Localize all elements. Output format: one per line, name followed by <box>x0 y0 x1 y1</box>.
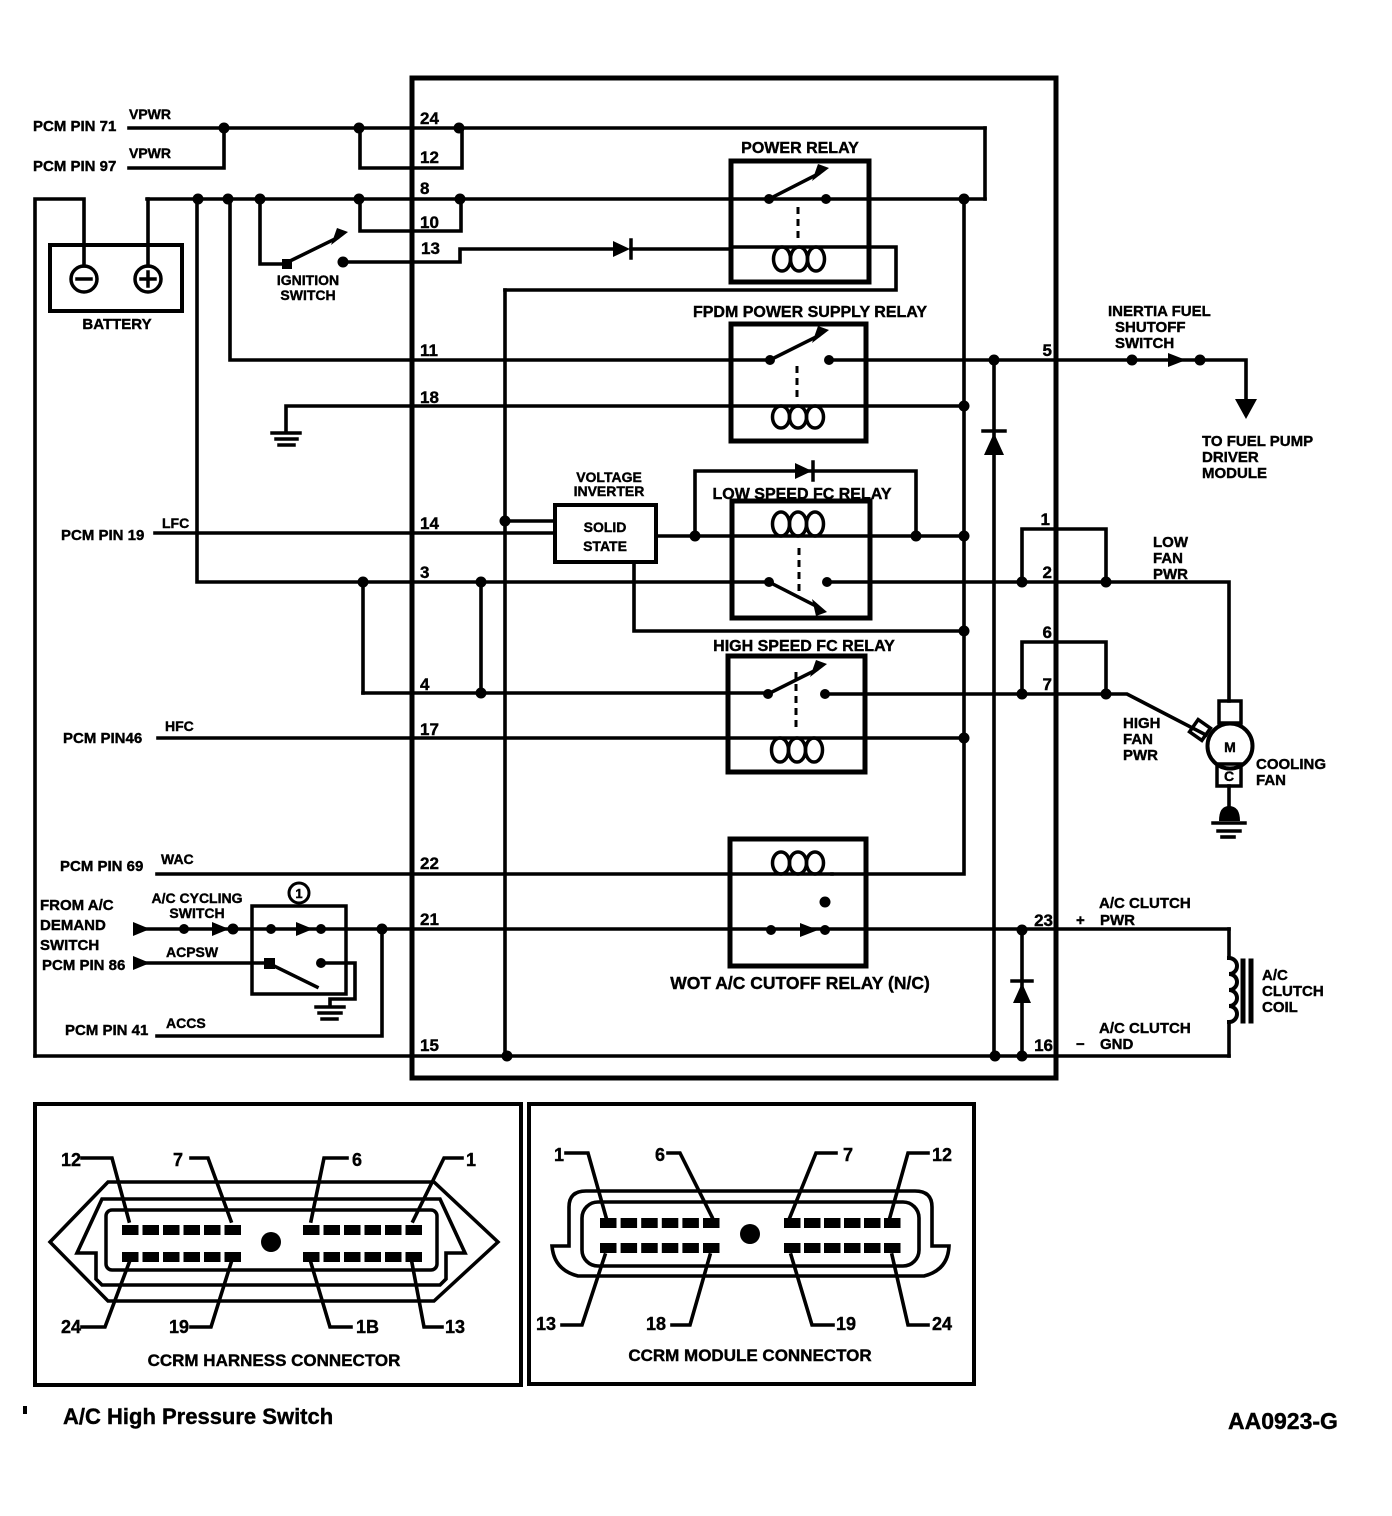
svg-text:TO FUEL PUMP: TO FUEL PUMP <box>1202 433 1313 450</box>
wire pin 6 outer bracket <box>1056 642 1106 694</box>
svg-text:1B: 1B <box>356 1317 379 1337</box>
junction bus x228 <box>223 194 234 205</box>
svg-text:1: 1 <box>295 886 302 901</box>
WOT arrow contact <box>800 923 818 937</box>
battery negative terminal <box>71 266 97 292</box>
svg-text:HFC: HFC <box>165 718 194 734</box>
wire pin 17 HFC line <box>158 736 728 740</box>
svg-text:FAN: FAN <box>1153 550 1183 567</box>
svg-text:MODULE: MODULE <box>1202 465 1267 482</box>
power relay right contact <box>821 194 831 204</box>
battery B+ bus wire <box>147 197 985 201</box>
wire VPWR pin97 riser <box>129 128 224 168</box>
junction 4 line x481 <box>476 688 487 699</box>
junction HS coil rail <box>959 733 970 744</box>
svg-text:19: 19 <box>169 1317 189 1337</box>
svg-text:PCM PIN 19: PCM PIN 19 <box>61 527 144 544</box>
HS relay actuator dashed <box>795 672 798 730</box>
svg-text:7: 7 <box>1043 675 1052 694</box>
svg-text:POWER RELAY: POWER RELAY <box>741 140 859 157</box>
power relay left contact <box>764 194 774 204</box>
wire lower contact to ground <box>321 963 355 1006</box>
inductor A/C CLUTCH COIL <box>1227 929 1231 958</box>
junction LS coil right <box>911 531 922 542</box>
connector J2 module outer shell <box>552 1191 949 1276</box>
ground symbol cycling switch <box>316 1007 344 1019</box>
CCRM module box outline <box>412 78 1056 1078</box>
WOT right contact <box>820 925 830 935</box>
svg-text:CCRM HARNESS CONNECTOR: CCRM HARNESS CONNECTOR <box>148 1351 401 1370</box>
FPDM right contact <box>824 355 834 365</box>
arrow from a/c demand switch <box>133 922 150 936</box>
svg-text:19: 19 <box>836 1314 856 1334</box>
junction 3 line x363 <box>358 577 369 588</box>
svg-text:CLUTCH: CLUTCH <box>1262 983 1324 1000</box>
HS relay left contact <box>763 689 773 699</box>
svg-text:SWITCH: SWITCH <box>40 937 99 954</box>
FPDM switch arm <box>770 336 818 360</box>
relay HIGH SPEED FC RELAY box <box>728 656 865 772</box>
relay WOT A/C CUTOFF RELAY box <box>730 839 866 966</box>
svg-text:SHUTOFF: SHUTOFF <box>1115 319 1186 336</box>
wire FPDM coil to power rail <box>866 404 964 408</box>
connector J1 harness outer hexagon <box>50 1182 498 1301</box>
svg-text:18: 18 <box>646 1314 666 1334</box>
connector J1 pins top left group <box>122 1225 241 1235</box>
wire pin 21 line <box>136 927 1229 931</box>
svg-text:GND: GND <box>1100 1036 1134 1053</box>
wire pin 6 inner bracket <box>1022 642 1056 694</box>
svg-text:18: 18 <box>420 388 439 407</box>
svg-text:1: 1 <box>554 1145 564 1165</box>
svg-text:PCM PIN 86: PCM PIN 86 <box>42 957 125 974</box>
svg-text:DRIVER: DRIVER <box>1202 449 1259 466</box>
svg-text:5: 5 <box>1043 341 1052 360</box>
svg-text:PWR: PWR <box>1153 566 1188 583</box>
connector J1 pins bottom left group <box>122 1252 241 1262</box>
wire pin 14 LFC line <box>155 531 555 535</box>
svg-text:13: 13 <box>445 1317 465 1337</box>
svg-text:FAN: FAN <box>1256 772 1286 789</box>
junction 21 line x184 <box>179 924 189 934</box>
wire LS coil to power rail <box>870 534 964 538</box>
HS relay switch arm <box>768 670 816 694</box>
svg-text:7: 7 <box>843 1145 853 1165</box>
junction ACCS tap <box>377 924 388 935</box>
junction 15 line x995 <box>990 1051 1001 1062</box>
junction LS coil left <box>690 531 701 542</box>
arrow to fuel pump driver module <box>1235 399 1257 419</box>
wire internal ground rail x505 <box>503 290 507 1056</box>
connector J1 center hole <box>261 1232 281 1252</box>
wire HS coil to power rail <box>865 736 964 740</box>
junction 7 line x1106 <box>1101 689 1112 700</box>
ground fan motor <box>1227 786 1231 808</box>
cycling switch upper right contact <box>316 924 326 934</box>
junction 15 line x507 <box>502 1051 513 1062</box>
relay POWER RELAY box <box>731 161 869 282</box>
motor COOLING FAN <box>1219 701 1241 723</box>
svg-text:M: M <box>1224 739 1236 755</box>
junction 21 line x233 <box>228 924 239 935</box>
svg-text:VPWR: VPWR <box>129 106 171 122</box>
cycling switch lower arm <box>272 965 317 987</box>
junction diode tap on 5 line <box>989 355 1000 366</box>
cycling switch lower left contact <box>264 958 275 969</box>
svg-text:INERTIA FUEL: INERTIA FUEL <box>1108 303 1211 320</box>
svg-text:SWITCH: SWITCH <box>1115 335 1174 352</box>
connector J1 pins top right group <box>303 1225 422 1235</box>
junction VPWR join <box>219 123 230 134</box>
LS relay coil <box>732 534 870 538</box>
svg-text:2: 2 <box>1043 563 1052 582</box>
panel CCRM module connector box <box>529 1104 974 1384</box>
svg-text:21: 21 <box>420 910 439 929</box>
svg-text:PWR: PWR <box>1123 747 1158 764</box>
wire pin 22 WAC line <box>157 872 730 876</box>
wire pin 7 fan high line <box>825 694 1206 735</box>
wire internal power rail x964 <box>832 199 964 874</box>
wire ACPSW line <box>146 961 269 965</box>
connector J2 pins bottom left group <box>600 1243 720 1253</box>
wire power relay coil return <box>505 247 896 290</box>
svg-text:22: 22 <box>420 854 439 873</box>
connector J2 inner shell <box>582 1202 919 1266</box>
svg-text:A/C: A/C <box>1262 967 1288 984</box>
connector J1 middle shell <box>77 1199 465 1285</box>
FPDM coil <box>731 404 866 408</box>
junction bus x260 <box>255 194 266 205</box>
LS relay actuator dashed <box>798 548 801 592</box>
svg-text:INVERTER: INVERTER <box>574 483 645 499</box>
connector J2 center hole <box>740 1224 760 1244</box>
svg-text:COOLING: COOLING <box>1256 756 1326 773</box>
wire ignition to pin 13 <box>343 249 614 262</box>
svg-text:HIGH: HIGH <box>1123 715 1161 732</box>
svg-text:SWITCH: SWITCH <box>280 287 335 303</box>
connector J1 pins bottom right group <box>303 1252 422 1262</box>
footnote marker circled 1 <box>289 883 309 903</box>
wire battery positive riser <box>146 199 150 266</box>
HS relay right contact <box>820 689 830 699</box>
wire diode to power relay coil <box>631 247 731 251</box>
wire 24-12 jumper bracket <box>360 128 462 168</box>
svg-text:12: 12 <box>932 1145 952 1165</box>
svg-text:IGNITION: IGNITION <box>277 272 339 288</box>
svg-text:ACCS: ACCS <box>166 1015 206 1031</box>
junction coil power rail <box>959 401 970 412</box>
power relay actuator dashed <box>797 207 800 243</box>
battery BATTERY box <box>50 245 182 311</box>
ignition switch right contact <box>338 257 349 268</box>
svg-text:11: 11 <box>420 341 438 360</box>
wire solid state output right <box>656 534 732 538</box>
svg-text:6: 6 <box>1043 623 1052 642</box>
svg-text:16: 16 <box>1034 1036 1053 1055</box>
svg-text:23: 23 <box>1034 911 1053 930</box>
junction bottom output at power rail <box>959 626 970 637</box>
svg-text:17: 17 <box>420 720 439 739</box>
wire 3-4 link x481 <box>479 582 483 693</box>
junction bus x964 <box>959 194 970 205</box>
svg-text:6: 6 <box>352 1150 362 1170</box>
arrow on 21 line <box>212 922 229 936</box>
svg-text:CCRM MODULE CONNECTOR: CCRM MODULE CONNECTOR <box>628 1346 871 1365</box>
WOT relay coil <box>730 872 832 876</box>
connector J2 pins top right group <box>784 1218 901 1228</box>
svg-text:BATTERY: BATTERY <box>82 316 151 333</box>
diode D1 on pin 13 line <box>613 241 630 257</box>
svg-text:FPDM POWER SUPPLY RELAY: FPDM POWER SUPPLY RELAY <box>693 304 927 321</box>
junction LS coil rail <box>959 531 970 542</box>
svg-text:+: + <box>1076 912 1085 929</box>
svg-text:C: C <box>1224 768 1234 784</box>
svg-text:PCM PIN 69: PCM PIN 69 <box>60 858 143 875</box>
box SOLID STATE voltage inverter <box>555 505 656 562</box>
svg-text:1: 1 <box>466 1150 476 1170</box>
wire solid state output bottom <box>634 562 964 631</box>
wire pin 2 fan low line <box>827 582 1229 701</box>
svg-text:FROM A/C: FROM A/C <box>40 897 114 914</box>
svg-text:PCM PIN46: PCM PIN46 <box>63 730 142 747</box>
junction 2 line x1106 <box>1101 577 1112 588</box>
svg-text:WOT A/C CUTOFF RELAY (N/C): WOT A/C CUTOFF RELAY (N/C) <box>670 973 930 993</box>
HS relay coil <box>728 736 865 740</box>
WOT NC indicator dot <box>820 897 831 908</box>
cycling switch upper left contact <box>266 924 276 934</box>
junction 7 line x1022 <box>1017 689 1028 700</box>
svg-text:VPWR: VPWR <box>129 145 171 161</box>
FPDM actuator dashed <box>796 366 799 399</box>
wire solid state upper tap <box>505 519 555 523</box>
svg-text:A/C CYCLING: A/C CYCLING <box>152 890 243 906</box>
junction 23 line x1022 <box>1017 925 1028 936</box>
svg-text:13: 13 <box>421 239 440 258</box>
svg-text:A/C CLUTCH: A/C CLUTCH <box>1099 895 1191 912</box>
WOT left contact <box>766 925 776 935</box>
svg-text:SWITCH: SWITCH <box>169 905 224 921</box>
svg-text:4: 4 <box>420 675 430 694</box>
wire pin 1 inner bracket <box>1022 529 1056 582</box>
panel CCRM harness connector box <box>35 1104 521 1385</box>
svg-text:AA0923-G: AA0923-G <box>1228 1408 1338 1434</box>
wire pin 18 ground line <box>286 406 731 431</box>
svg-text:SOLID: SOLID <box>584 519 627 535</box>
svg-text:PCM PIN 97: PCM PIN 97 <box>33 158 116 175</box>
diode D4 clutch flyback <box>1020 930 1024 1056</box>
svg-text:14: 14 <box>420 514 439 533</box>
FPDM left contact <box>765 355 775 365</box>
svg-text:LOW: LOW <box>1153 534 1189 551</box>
svg-text:8: 8 <box>420 179 429 198</box>
svg-text:FAN: FAN <box>1123 731 1153 748</box>
svg-text:HIGH SPEED FC RELAY: HIGH SPEED FC RELAY <box>713 638 895 655</box>
wire ACCS line riser to 21 <box>157 929 382 1036</box>
LS relay right contact <box>822 577 832 587</box>
junction bus x460 <box>455 194 466 205</box>
svg-text:DEMAND: DEMAND <box>40 917 106 934</box>
power relay coil <box>731 245 869 249</box>
junction 15 line x1022 <box>1017 1051 1028 1062</box>
junction bus x198 <box>193 194 204 205</box>
cycling switch lower right contact <box>316 958 326 968</box>
svg-text:A/C CLUTCH: A/C CLUTCH <box>1099 1020 1191 1037</box>
svg-text:PCM PIN 71: PCM PIN 71 <box>33 118 116 135</box>
svg-text:STATE: STATE <box>583 538 627 554</box>
junction 24 bus right <box>454 123 465 134</box>
wire pin 5 FPDM output <box>829 360 1246 399</box>
footnote marker <box>23 1406 27 1414</box>
LS relay left contact <box>764 577 774 587</box>
switch IGNITION SWITCH <box>260 199 283 264</box>
svg-text:COIL: COIL <box>1262 999 1298 1016</box>
diode D3 bypass over LS coil <box>695 471 916 536</box>
svg-text:1: 1 <box>1041 510 1050 529</box>
ground symbol pin 18 <box>272 433 300 445</box>
junction 2 line x1022 <box>1017 577 1028 588</box>
wire pin 1 outer bracket <box>1056 529 1106 582</box>
switch A/C cycling switch box <box>252 906 346 994</box>
junction 24 bus left <box>354 123 365 134</box>
svg-text:12: 12 <box>420 148 439 167</box>
svg-text:13: 13 <box>536 1314 556 1334</box>
svg-text:WAC: WAC <box>161 851 194 867</box>
wire pin 15 16 ground line <box>35 1054 1229 1058</box>
wire pin 11 line <box>230 199 770 360</box>
wire VPWR pin71 to pin 24 bus <box>129 126 985 130</box>
relay FPDM box <box>731 324 866 441</box>
svg-text:PCM PIN 41: PCM PIN 41 <box>65 1022 148 1039</box>
junction bus x359 <box>354 194 365 205</box>
wire battery negative to ground loop left vertical <box>35 199 84 1056</box>
svg-text:10: 10 <box>420 213 439 232</box>
svg-text:PWR: PWR <box>1100 912 1135 929</box>
wire 3-4 link x363 <box>361 582 365 693</box>
power relay switch arm <box>769 174 818 199</box>
svg-text:−: − <box>1076 1036 1085 1053</box>
svg-text:LFC: LFC <box>162 515 189 531</box>
svg-text:3: 3 <box>420 563 429 582</box>
LS relay switch arm <box>769 582 816 606</box>
wire pin 4 line <box>363 691 768 695</box>
relay LOW SPEED FC RELAY box <box>732 501 870 618</box>
connector J2 pins bottom right group <box>784 1243 901 1253</box>
svg-text:ACPSW: ACPSW <box>166 944 219 960</box>
switch inertia fuel shutoff contacts <box>1127 355 1138 366</box>
diode D2 vertical with rail <box>992 360 996 1056</box>
battery positive terminal <box>135 266 161 292</box>
connector J1 pin box <box>106 1210 437 1270</box>
connector J2 pins top left group <box>600 1218 720 1228</box>
junction x505 tap <box>500 516 511 527</box>
wire 24 line drop to B+ bus <box>983 128 987 199</box>
svg-text:24: 24 <box>61 1317 81 1337</box>
svg-text:7: 7 <box>173 1150 183 1170</box>
svg-text:6: 6 <box>655 1145 665 1165</box>
wire pin 3 line <box>197 199 769 582</box>
arrow ACPSW start <box>133 956 150 970</box>
junction 3 line x481 <box>476 577 487 588</box>
svg-text:A/C High Pressure Switch: A/C High Pressure Switch <box>63 1404 333 1429</box>
svg-text:12: 12 <box>61 1150 81 1170</box>
arrow inside cycling switch <box>296 922 313 936</box>
svg-text:24: 24 <box>420 109 439 128</box>
wire 8-10 jumper bracket <box>360 199 461 231</box>
svg-text:24: 24 <box>932 1314 952 1334</box>
svg-text:15: 15 <box>420 1036 439 1055</box>
